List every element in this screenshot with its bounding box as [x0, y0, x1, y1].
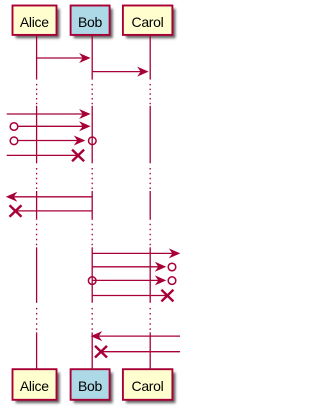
svg-text:Bob: Bob: [78, 14, 103, 30]
svg-text:Carol: Carol: [132, 378, 164, 394]
svg-text:Bob: Bob: [78, 378, 103, 394]
svg-text:Carol: Carol: [132, 14, 164, 30]
svg-text:Alice: Alice: [20, 378, 49, 394]
svg-text:Alice: Alice: [20, 14, 49, 30]
